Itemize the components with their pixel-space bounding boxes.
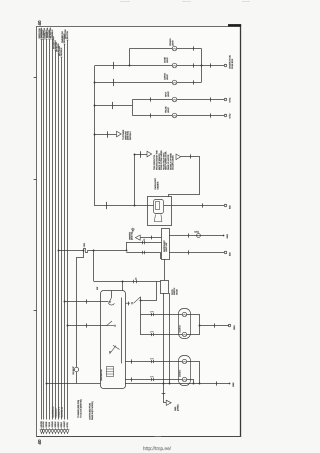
wire ground bar y383	[125, 383, 229, 385]
wire U2 out row235	[169, 235, 223, 237]
svg-text:DOME 7.5A: DOME 7.5A	[43, 27, 46, 38]
wire U3 pin2 vertical	[169, 293, 171, 383]
node y250-x93.8 junction	[93, 250, 95, 252]
node bus line9 y302	[64, 301, 66, 303]
svg-text:C3: C3	[135, 278, 137, 280]
svg-text:2: 2	[153, 331, 155, 332]
label U1	[154, 177, 160, 189]
connector tick S1b feed	[86, 323, 88, 327]
wire branch B trunk to lamp L2	[95, 65, 173, 67]
node x126.3-y250 junction	[126, 250, 128, 252]
relay coil U1	[154, 200, 164, 214]
switch contact S1c	[110, 345, 120, 354]
wire L5 out	[177, 115, 225, 117]
connector tick S2	[128, 302, 130, 306]
terminal U1 out	[224, 204, 227, 207]
terminal row252	[224, 251, 227, 254]
connector pair row P2 bottom	[151, 375, 155, 381]
connector arrow branch E	[117, 131, 122, 137]
svg-text:PAGE 39 (KY MODEL): PAGE 39 (KY MODEL)	[91, 401, 94, 420]
note text block circuit note	[154, 150, 174, 170]
wire y281 from x93.8	[94, 281, 161, 283]
svg-text:BLU/RED 14: BLU/RED 14	[52, 406, 55, 418]
svg-text:TRUNK 15A: TRUNK 15A	[46, 27, 49, 38]
svg-text:(SEE P.41): (SEE P.41)	[132, 231, 134, 240]
node trunk-branchD junction	[94, 105, 96, 107]
connector pair row P1 bottom	[151, 330, 155, 336]
label L2	[165, 57, 170, 63]
svg-text:KEY IN SW: KEY IN SW	[59, 45, 61, 56]
wire row lamp L4	[132, 99, 172, 101]
label L5	[166, 106, 171, 113]
fuse tick branch C	[113, 79, 115, 86]
svg-text:GRN/WHT 9: GRN/WHT 9	[59, 406, 61, 417]
wire bus line 5 (GRN/BLU)	[49, 27, 54, 434]
switch contact S1b	[107, 321, 115, 326]
svg-text:C501: C501	[84, 243, 86, 247]
fuse tick branch B	[113, 62, 115, 69]
wire U1 internal right	[164, 205, 172, 207]
connector tick y237.6	[151, 236, 153, 240]
label U2 inner	[164, 240, 168, 252]
wire U2 to U3	[164, 259, 166, 280]
wire bus line 2 (BLU/WHT)	[40, 27, 45, 433]
svg-text:LIGHT: LIGHT	[167, 74, 169, 80]
relay contact U1	[154, 215, 162, 222]
svg-text:LIGHTING SW: LIGHTING SW	[101, 369, 103, 381]
label U3 right	[172, 287, 179, 295]
svg-text:SW: SW	[97, 287, 99, 290]
node P1 bracket mid	[199, 325, 201, 327]
svg-text:DIODE: DIODE	[176, 289, 178, 295]
wire S1 inner vert right	[121, 298, 123, 364]
wire drop jog to x76.3	[77, 250, 84, 367]
wire riser x140.5 rows	[140, 314, 142, 335]
wire bus line 3 (RED/BLK)	[43, 27, 48, 433]
node riser-branchF junction	[134, 154, 136, 156]
svg-text:DIMMER: DIMMER	[157, 181, 159, 189]
connector tick row235	[188, 233, 190, 237]
wire bus line 4 (YEL/GRN)	[46, 27, 51, 433]
lamp P2 lower	[182, 377, 186, 381]
wire L1 to bracket	[177, 48, 201, 50]
svg-text:FUSE BOX: FUSE BOX	[232, 58, 234, 69]
svg-text:W/BLK: W/BLK	[55, 421, 57, 428]
wire U2 out row252	[169, 252, 224, 254]
svg-text:BLU/W: BLU/W	[43, 421, 45, 427]
connector circle C651	[197, 234, 201, 238]
svg-text:LIGHT UNIT: LIGHT UNIT	[166, 242, 168, 252]
wire bus line 9 (GRN/WHT)	[62, 30, 66, 433]
svg-text:G/WHT: G/WHT	[64, 420, 66, 427]
wire y242 into U2	[126, 242, 161, 244]
connector tick branch F	[140, 151, 142, 158]
node bus line7 feed	[58, 250, 60, 252]
connector tick S1a feed	[86, 299, 88, 303]
lamp L5 trunk light	[172, 113, 177, 118]
courtesy lamp assembly P1	[179, 309, 191, 339]
wire bus feed y250	[58, 250, 81, 252]
node trunk-branchE junction	[94, 134, 96, 136]
label branch E note	[123, 129, 132, 140]
wire riser x134	[134, 154, 136, 206]
wire trunk vertical	[94, 66, 96, 206]
svg-text:YEL/G: YEL/G	[49, 421, 51, 427]
lamp P2 upper	[182, 359, 186, 363]
node bus line10 y325.7	[67, 325, 69, 327]
connector tick P1 out	[214, 323, 216, 327]
wire y250 to riser	[89, 250, 127, 252]
svg-text:CLOCK 10A: CLOCK 10A	[40, 27, 43, 38]
relay core U1	[156, 202, 160, 210]
wire U3 pin1 vertical	[163, 293, 165, 383]
wire y383 left segment	[47, 383, 101, 385]
wire S1 out row362	[125, 361, 182, 363]
svg-text:DOOR LT: DOOR LT	[180, 369, 182, 377]
svg-text:DOOR SW: DOOR SW	[56, 41, 58, 52]
node ground bar x199	[199, 383, 201, 385]
wire arrow feed y237.6	[140, 237, 161, 239]
terminal G751	[224, 98, 227, 101]
svg-text:2: 2	[153, 376, 155, 377]
wire S1 inner vertical	[111, 291, 113, 298]
connector tick row252	[188, 250, 190, 254]
connector pair row P1 top	[151, 310, 155, 316]
svg-text:2: 2	[153, 311, 155, 312]
label L4	[166, 91, 171, 97]
svg-text:GRN/B: GRN/B	[52, 421, 54, 428]
connector pair row P2 top	[151, 357, 155, 363]
switch S2 diagonal	[125, 297, 140, 303]
node y281-x122.5 junction	[122, 281, 124, 283]
wire riser x93.8 down	[93, 250, 95, 281]
node labels bottom bus	[52, 406, 64, 418]
node drop x83.8	[83, 250, 85, 252]
wire trunk into U1	[95, 205, 148, 207]
connector C501 inline jog	[82, 249, 89, 253]
svg-text:LIGHT: LIGHT	[167, 57, 169, 63]
svg-text:(GRND): (GRND)	[177, 404, 179, 411]
wire row lamp L5	[132, 115, 172, 117]
terminal P1	[228, 324, 231, 327]
connector tick fuse box feed	[210, 63, 212, 67]
connector arrow branch F	[147, 151, 152, 157]
border frame	[34, 25, 242, 436]
connector arrow G left	[135, 235, 140, 240]
wire bus line 10 (BLU/YEL)	[65, 29, 69, 434]
wire riser x129.8	[129, 48, 131, 66]
svg-text:C2: C2	[144, 239, 146, 241]
wire bus line 6 (WHT/BLK)	[53, 36, 57, 434]
wire branch D trunk to rows 4-5	[95, 105, 133, 107]
svg-text:RED/B: RED/B	[46, 421, 48, 427]
label G401	[175, 404, 180, 411]
connector tick ground bar	[216, 381, 218, 385]
svg-text:G401: G401	[227, 234, 229, 238]
fuse tick branch D	[112, 102, 114, 109]
wire riser x126.3	[126, 242, 128, 250]
label L1	[170, 38, 175, 46]
svg-text:B/RED: B/RED	[58, 421, 60, 427]
svg-text:COLOR CODES.: COLOR CODES.	[173, 155, 175, 170]
svg-text:2: 2	[153, 358, 155, 359]
wire branch F	[134, 154, 147, 156]
lamp P1 upper	[182, 312, 186, 316]
label arrow G	[129, 231, 133, 240]
connector pair y281	[134, 280, 137, 283]
svg-text:DIMMER SW: DIMMER SW	[62, 30, 64, 43]
node ground bar x163	[163, 383, 165, 385]
terminal dot ground bar	[229, 383, 231, 385]
label UNDER-HOOD FUSE BOX	[229, 55, 234, 69]
svg-text:http://tmp.ee/: http://tmp.ee/	[143, 446, 172, 452]
svg-text:LIGHT: LIGHT	[168, 91, 170, 97]
svg-text:UNDER-HOOD: UNDER-HOOD	[229, 55, 231, 69]
ignition key light unit U2	[162, 229, 170, 260]
switch contact S1a	[109, 298, 115, 306]
lamp L2 dome light	[172, 63, 177, 68]
svg-text:R/BLK: R/BLK	[61, 421, 63, 427]
svg-text:LIGHT SW: LIGHT SW	[65, 29, 67, 39]
wire S2 node vertical	[140, 297, 142, 315]
svg-text:IGN SW FEED: IGN SW FEED	[53, 36, 55, 49]
node bus line3 y383	[46, 383, 48, 385]
reference arrow up	[131, 228, 134, 232]
courtesy lamp assembly P2	[179, 356, 191, 386]
svg-text:G402: G402	[233, 383, 235, 387]
wire bracket vertical x201	[201, 48, 203, 82]
connector tick L2 out	[193, 63, 195, 67]
wire L2 to bracket	[177, 65, 201, 67]
wire bus to S1a	[64, 301, 108, 303]
connector tick L5 out2	[210, 113, 212, 117]
dimmer unit U1 box	[148, 197, 172, 226]
node trunk-branchC junction	[94, 82, 96, 84]
wire y252.4 into U2	[126, 253, 160, 260]
wire drop x156 to diagonal	[149, 281, 157, 300]
svg-text:40: 40	[37, 20, 42, 26]
connector tick row362	[131, 359, 133, 363]
wire row P1 top	[141, 314, 183, 316]
label L3	[164, 72, 170, 80]
node ground bar x193	[193, 383, 195, 385]
svg-text:RED/BLK 7: RED/BLK 7	[56, 407, 58, 418]
svg-text:METER 10A: METER 10A	[49, 27, 52, 39]
connector tick row L4	[150, 97, 152, 101]
lamp L4 spot light	[172, 97, 177, 102]
svg-text:BLU/YEL: BLU/YEL	[67, 30, 69, 39]
ground arrow G401	[166, 400, 171, 405]
wire bus line 7 (BLU/RED)	[56, 41, 60, 433]
node ground bar x169.4	[169, 383, 171, 385]
connector arrow F2	[176, 154, 181, 160]
wire S1 out row380	[125, 379, 182, 381]
wire P2 lower jog	[187, 380, 194, 384]
wire bus line 1 (WHT/RED)	[38, 28, 43, 434]
connector tick L4 out2	[210, 97, 212, 101]
connector pair y242	[143, 241, 145, 244]
connector tick ground drop	[162, 393, 166, 395]
lamp L1 ceiling light	[172, 46, 177, 51]
wire below C730	[76, 372, 78, 384]
connector tick F2	[190, 154, 192, 158]
svg-text:40: 40	[37, 439, 42, 445]
wire S1 top entry	[122, 281, 124, 290]
connector tick L1 out	[193, 46, 195, 50]
wire F2 loop into relay box	[169, 157, 200, 197]
door diode unit U3	[161, 281, 169, 294]
fuse tick trunk-U1	[106, 202, 108, 209]
svg-text:BLU/YEL 12: BLU/YEL 12	[62, 406, 64, 417]
connector tick row380	[131, 377, 133, 381]
terminal G752	[224, 114, 227, 117]
resistor block S1	[107, 367, 114, 377]
connector circle C730	[74, 367, 78, 371]
wire S2 node to jog	[141, 300, 149, 302]
scan artifacts top edge	[120, 1, 250, 3]
interior light switch S1 box	[101, 291, 126, 389]
svg-text:RED/BLK: RED/BLK	[61, 47, 63, 56]
wire P1 right bracket	[187, 315, 200, 335]
note text bottom left	[77, 399, 94, 420]
svg-text:WHT/BLU: WHT/BLU	[130, 131, 132, 140]
wire bus line 8 (RED/BLK)	[59, 45, 63, 434]
svg-text:LIGHT: LIGHT	[173, 40, 175, 46]
lamp L3 cargo light	[172, 80, 177, 85]
node bracket mid	[201, 65, 203, 67]
wire L3 to bracket	[177, 82, 201, 84]
paper inside border	[37, 27, 241, 437]
node S2 output	[140, 300, 142, 302]
wire branch A to lamp L1	[130, 48, 172, 50]
wire bus to S1b	[67, 325, 106, 327]
wire branch C trunk to lamp L3	[95, 82, 173, 84]
wire U1 internal left	[148, 205, 154, 207]
connector tick row L5	[150, 113, 152, 117]
connector tick U1 out	[202, 203, 204, 207]
svg-text:BLU/WHT: BLU/WHT	[73, 366, 75, 375]
svg-text:LIGHT: LIGHT	[168, 107, 170, 113]
wire P2 right bracket	[187, 362, 200, 384]
connector pair y252	[143, 251, 145, 254]
wire U1 output	[171, 205, 224, 207]
wire riser x132.4	[132, 100, 134, 116]
connector tick branch E	[107, 131, 109, 138]
node riser-branchB junction	[129, 65, 131, 67]
node riser-trunkline junction	[134, 205, 136, 207]
svg-text:TO CLOCK (SEE P.82): TO CLOCK (SEE P.82)	[80, 399, 82, 418]
terminal dot row235	[223, 235, 225, 237]
connector tick L3 out	[193, 80, 195, 84]
wire P1 output	[199, 325, 229, 327]
svg-text:DOOR LT: DOOR LT	[180, 324, 182, 332]
wire bracket to fuse box	[201, 65, 224, 67]
wire L4 out	[177, 99, 225, 101]
wire branch E	[95, 134, 117, 136]
wire ground drop	[164, 383, 167, 402]
wire row P1 bottom	[141, 334, 183, 336]
lamp P1 lower	[182, 332, 186, 336]
terminal fuse box	[224, 64, 227, 67]
